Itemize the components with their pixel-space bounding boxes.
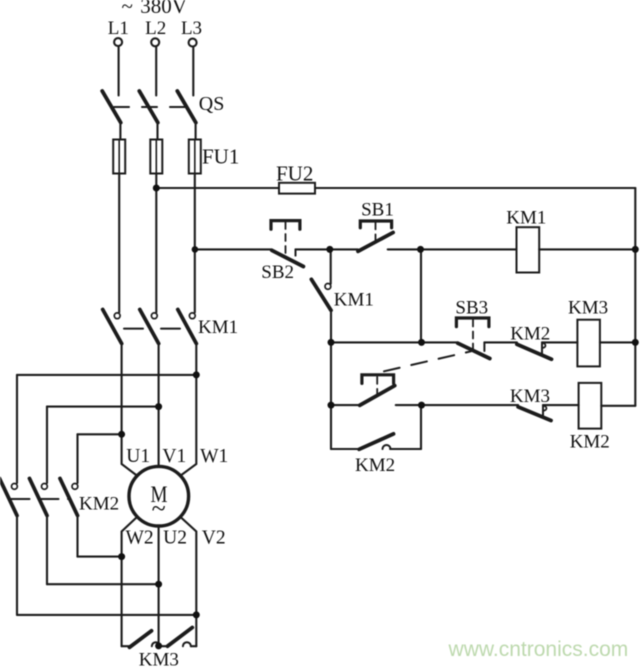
svg-text:QS: QS xyxy=(199,93,225,115)
svg-text:KM2: KM2 xyxy=(79,494,119,515)
svg-text:www.cntronics.com: www.cntronics.com xyxy=(448,638,629,661)
svg-text:KM2: KM2 xyxy=(570,431,610,452)
svg-text:SB1: SB1 xyxy=(361,199,394,220)
svg-text:KM3: KM3 xyxy=(510,386,550,407)
svg-text:FU1: FU1 xyxy=(202,145,239,169)
svg-text:W2: W2 xyxy=(126,528,154,549)
svg-text:V2: V2 xyxy=(202,528,226,549)
svg-text:~: ~ xyxy=(152,494,166,523)
svg-text:~: ~ xyxy=(122,0,133,18)
svg-text:SB3: SB3 xyxy=(455,297,488,318)
svg-text:KM1: KM1 xyxy=(334,290,374,311)
svg-text:KM1: KM1 xyxy=(198,317,238,338)
svg-text:KM2: KM2 xyxy=(355,455,395,476)
svg-text:L2: L2 xyxy=(145,18,166,39)
svg-text:V1: V1 xyxy=(162,446,186,467)
svg-text:L3: L3 xyxy=(181,18,202,39)
svg-text:KM1: KM1 xyxy=(506,208,546,229)
svg-text:W1: W1 xyxy=(200,446,228,467)
svg-text:L1: L1 xyxy=(108,18,129,39)
svg-text:380V: 380V xyxy=(140,0,187,18)
svg-text:U1: U1 xyxy=(126,446,150,467)
svg-text:U2: U2 xyxy=(163,528,187,549)
svg-text:KM3: KM3 xyxy=(139,650,179,667)
svg-text:KM2: KM2 xyxy=(510,324,550,345)
svg-text:FU2: FU2 xyxy=(276,162,313,186)
svg-text:KM3: KM3 xyxy=(568,298,608,319)
svg-text:SB2: SB2 xyxy=(261,262,294,283)
